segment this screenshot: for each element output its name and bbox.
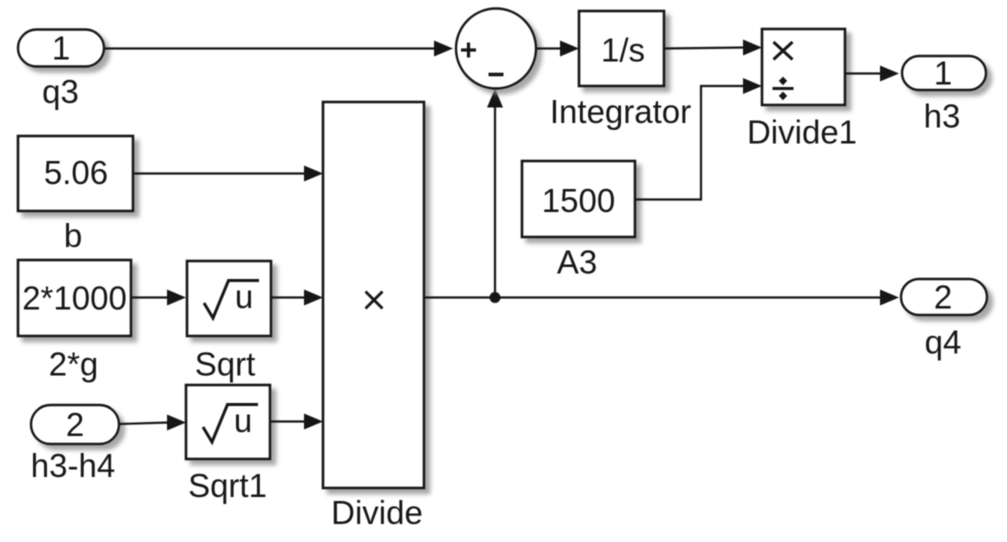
wire Integrator to Divide1 input 1 (664, 40, 762, 56)
outport 1 (h3) (902, 55, 986, 92)
svg-text:q4: q4 (925, 324, 962, 361)
svg-text:5.06: 5.06 (44, 154, 108, 191)
svg-text:Sqrt: Sqrt (195, 346, 256, 383)
svg-text:2: 2 (934, 279, 952, 316)
block Divide (323, 102, 424, 488)
svg-text:2*g: 2*g (49, 346, 99, 383)
sum block (456, 9, 536, 89)
wire Sum to Integrator (536, 41, 579, 57)
inport 2 (h3-h4) (31, 405, 119, 444)
svg-text:1: 1 (52, 30, 70, 67)
outport 2 (q4) (901, 279, 987, 316)
junction node (490, 292, 501, 303)
svg-text:q3: q3 (42, 73, 79, 110)
constant b value 5.06 (18, 136, 133, 211)
block Divide1 (762, 29, 845, 105)
svg-text:b: b (64, 217, 82, 254)
wire Sqrt to Divide input 2 (271, 290, 323, 306)
svg-text:2*1000: 2*1000 (22, 280, 127, 317)
svg-text:Integrator: Integrator (550, 93, 691, 130)
svg-text:Divide: Divide (331, 494, 423, 531)
svg-text:u: u (235, 278, 253, 315)
svg-text:h3: h3 (924, 98, 961, 135)
block Integrator (1/s) (579, 11, 664, 86)
wire Divide1 to h3 outport (845, 66, 899, 82)
block Sqrt (187, 261, 271, 336)
svg-text:h3-h4: h3-h4 (31, 447, 115, 484)
wire h3-h4 to Sqrt1 (119, 415, 186, 431)
wire branch junction up to Sum minus input (487, 89, 503, 298)
svg-text:2: 2 (66, 406, 84, 443)
svg-text:Sqrt1: Sqrt1 (188, 467, 267, 504)
svg-text:u: u (234, 402, 252, 439)
wire b to Divide input 1 (133, 166, 323, 182)
wire 2*g to Sqrt (131, 290, 186, 306)
svg-text:1/s: 1/s (601, 32, 645, 69)
svg-text:A3: A3 (557, 244, 597, 281)
svg-text:Divide1: Divide1 (747, 114, 857, 151)
wire A3 to Divide1 input 2 (635, 78, 762, 200)
svg-text:1: 1 (934, 55, 952, 92)
constant 2*g value 2*1000 (18, 260, 131, 336)
wire Sqrt1 to Divide input 3 (270, 414, 323, 430)
block Sqrt1 (186, 385, 270, 459)
wire Divide output to q4 (424, 290, 899, 306)
wire q3 to Sum (104, 41, 453, 57)
svg-text:1500: 1500 (542, 182, 615, 219)
constant A3 value 1500 (522, 161, 635, 237)
inport 1 (q3) (18, 30, 104, 67)
